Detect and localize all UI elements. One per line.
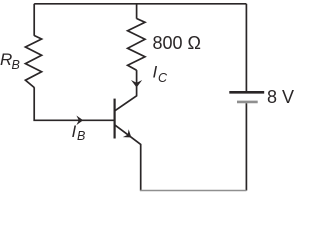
svg-text:800 Ω: 800 Ω <box>153 33 202 53</box>
svg-text:8 V: 8 V <box>267 87 294 107</box>
svg-text:B: B <box>77 129 85 143</box>
svg-text:I: I <box>72 122 77 141</box>
svg-text:I: I <box>153 63 158 82</box>
svg-text:B: B <box>12 58 20 72</box>
svg-text:R: R <box>0 50 12 69</box>
svg-text:C: C <box>158 71 168 85</box>
